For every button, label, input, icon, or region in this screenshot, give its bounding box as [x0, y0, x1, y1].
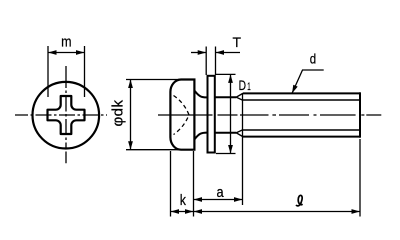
phillips cross recess — [48, 96, 85, 134]
dimension m extension line right — [84, 46, 86, 97]
l arrow left — [194, 209, 203, 214]
dimension l line — [194, 211, 361, 213]
svg-text:D: D — [239, 78, 246, 94]
D1 arrow top — [228, 74, 233, 83]
dimension phi-dk extension line top — [126, 79, 181, 81]
T arrow right — [216, 50, 225, 55]
dimension k extension line left — [170, 151, 172, 217]
shaft end face — [359, 92, 361, 137]
T arrow left — [198, 50, 207, 55]
dimension T extension line right — [215, 47, 217, 76]
svg-text:T: T — [233, 34, 242, 50]
neck lower curve — [194, 133, 206, 140]
thread start chamfer top — [236, 93, 243, 100]
phi-dk arrow bottom — [128, 141, 133, 150]
thread root top line — [243, 99, 359, 101]
dimension T line right segment — [216, 52, 241, 54]
label l (script ell) — [296, 195, 303, 205]
thread major bottom line — [243, 136, 360, 138]
svg-text:d: d — [310, 51, 316, 67]
a arrow right — [234, 197, 243, 202]
horizontal centerline (front view) — [15, 114, 107, 116]
m arrow left — [48, 50, 57, 55]
dimension k extension line right — [193, 151, 195, 217]
svg-text:1: 1 — [247, 81, 251, 93]
thread start chamfer bottom — [236, 130, 243, 137]
svg-text:φdk: φdk — [109, 99, 126, 126]
dimension phi-dk extension line bottom — [126, 149, 180, 151]
dimension a extension line right — [242, 93, 244, 205]
svg-text:k: k — [180, 192, 187, 209]
dimension l extension line right — [359, 139, 361, 217]
shank lower line — [215, 132, 236, 134]
dimension m extension line left — [47, 46, 49, 97]
pan head outline — [170, 80, 194, 150]
dimension a line — [194, 199, 243, 201]
D1 arrow bottom — [228, 145, 233, 154]
hidden recess lines (dashed) — [174, 96, 190, 135]
thread major top line — [243, 92, 360, 94]
m arrow right — [76, 50, 85, 55]
vertical centerline (front view) — [65, 66, 67, 163]
l arrow right — [352, 209, 361, 214]
leader line d — [292, 70, 324, 93]
dimension T line left segment — [191, 52, 206, 54]
dimension D1 extension line top — [216, 73, 236, 75]
side view centerline — [158, 114, 381, 116]
shank upper line — [215, 96, 236, 98]
head circle — [33, 82, 100, 149]
thread root bottom line — [243, 129, 359, 131]
svg-text:m: m — [61, 34, 71, 51]
neck upper curve — [194, 91, 206, 98]
dimension m line — [48, 52, 85, 54]
dimension k line — [171, 211, 194, 213]
dimension phi-dk line — [130, 80, 132, 150]
a arrow left — [194, 197, 203, 202]
dimension D1 extension line bottom — [216, 153, 236, 155]
dimension T extension line left — [205, 47, 207, 76]
d leader arrowhead — [292, 85, 298, 94]
k arrow right — [185, 209, 194, 214]
dimension D1 line — [230, 74, 232, 153]
svg-text:a: a — [216, 184, 224, 201]
k arrow left — [171, 209, 180, 214]
washer — [208, 76, 215, 153]
phi-dk arrow top — [128, 80, 133, 89]
